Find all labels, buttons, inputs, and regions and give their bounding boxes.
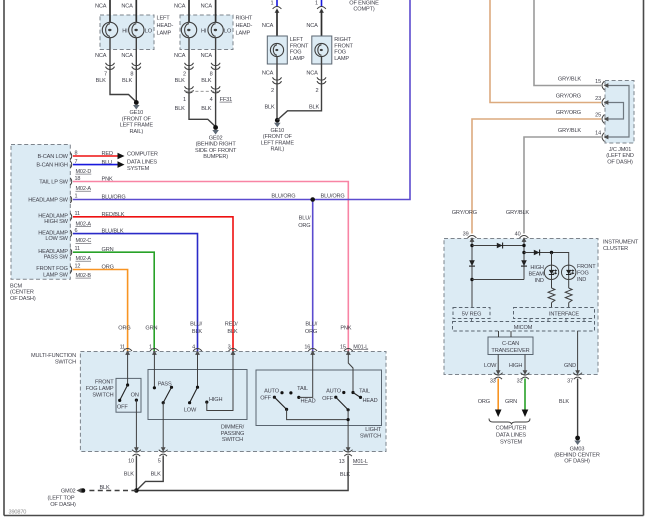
svg-text:5V REG: 5V REG	[462, 312, 482, 318]
pass switch contact and lever	[170, 386, 173, 389]
pin40 branch	[523, 241, 525, 280]
svg-text:OFF: OFF	[117, 405, 128, 411]
svg-text:SWITCH: SWITCH	[55, 359, 76, 365]
junction connector JM01 box	[605, 81, 634, 144]
svg-text:OFF: OFF	[260, 396, 271, 402]
JM01 internal link pins 15-14	[605, 86, 629, 138]
JM01 pin 14	[602, 133, 608, 142]
unit1 HEAD contact fed by pin 16	[297, 396, 300, 399]
fog switch lever to OFF	[120, 385, 128, 400]
svg-text:GE10: GE10	[129, 110, 143, 116]
svg-text:32: 32	[517, 379, 523, 385]
right headlamp box	[180, 15, 233, 50]
svg-text:DATA LINES: DATA LINES	[496, 433, 526, 439]
light switch box	[256, 370, 382, 426]
svg-text:NCA: NCA	[201, 53, 213, 59]
JM01 internal link pins 23-25	[605, 103, 624, 120]
svg-text:8: 8	[210, 72, 213, 78]
JM01 pin 15	[602, 81, 608, 90]
svg-text:AUTO: AUTO	[264, 389, 280, 395]
connector on left fog ground lead	[273, 77, 282, 84]
wire BLK pin 10 to ground junction	[135, 456, 137, 491]
svg-text:BLU/: BLU/	[305, 322, 317, 328]
cluster top pin 39	[468, 236, 477, 242]
fog switch input lead from pin 11	[127, 354, 129, 385]
cluster bottom pin 32	[521, 370, 530, 379]
top pin 16 (BLU/ORG)	[308, 349, 317, 355]
wire right fog lamp ground lead	[277, 57, 321, 120]
connector on HI wire	[185, 63, 194, 70]
svg-text:LAMP: LAMP	[290, 56, 305, 62]
svg-text:PNK: PNK	[340, 326, 351, 332]
wire feed right headlamp LO	[215, 0, 217, 22]
MICOM box	[453, 322, 595, 332]
connector on right fog feed	[317, 7, 326, 13]
top pin 4 (BLU/BLK)	[193, 349, 202, 355]
svg-text:ORG: ORG	[305, 329, 317, 335]
svg-text:11: 11	[120, 344, 126, 350]
ground GM02 (left top of dash)	[81, 488, 86, 493]
svg-text:4: 4	[192, 344, 195, 350]
svg-text:NCA: NCA	[262, 23, 274, 29]
svg-text:M02-A: M02-A	[76, 186, 92, 192]
svg-text:NCA: NCA	[306, 23, 318, 29]
svg-text:M01-L: M01-L	[353, 344, 368, 350]
border frame bottom	[4, 515, 644, 517]
svg-text:4: 4	[210, 97, 213, 103]
svg-text:HIGH: HIGH	[209, 397, 222, 403]
top pin 15 (PNK) + connector M01-L	[344, 349, 353, 355]
svg-text:FRONT: FRONT	[577, 264, 596, 270]
svg-text:PASS SW: PASS SW	[44, 254, 69, 260]
svg-text:BLK: BLK	[227, 329, 238, 335]
wire right headlamp HI ground lead	[189, 38, 216, 127]
connector on left fog feed	[273, 7, 282, 13]
svg-text:HEAD-: HEAD-	[236, 23, 253, 29]
link 39-40 with diode	[472, 245, 524, 247]
svg-text:RED/: RED/	[225, 322, 238, 328]
high beam indicator LED	[544, 265, 558, 279]
svg-text:GRN: GRN	[505, 399, 517, 405]
wire BLK pin 5 to ground junction	[136, 456, 163, 491]
svg-text:BLK: BLK	[99, 485, 110, 491]
wire feed left headlamp LO	[135, 0, 137, 22]
svg-text:33: 33	[490, 379, 496, 385]
svg-text:23: 23	[595, 96, 601, 102]
svg-text:GM02: GM02	[61, 489, 76, 495]
svg-text:M02-A: M02-A	[76, 221, 92, 227]
svg-text:BLK: BLK	[309, 104, 320, 110]
wire left headlamp LO ground lead	[135, 38, 137, 102]
bulb right headlamp HI	[181, 22, 196, 37]
unit2 AUTO contact	[342, 391, 345, 394]
5V REG box	[453, 308, 490, 319]
svg-text:IND: IND	[577, 277, 586, 283]
svg-text:RAIL): RAIL)	[130, 129, 144, 135]
svg-text:HIGH: HIGH	[530, 265, 543, 271]
svg-text:DATA LINES: DATA LINES	[127, 160, 157, 166]
svg-text:1: 1	[183, 97, 186, 103]
cluster internal: pin39 branch	[471, 241, 473, 308]
svg-text:16: 16	[304, 344, 310, 350]
svg-text:(CENTER: (CENTER	[10, 290, 34, 296]
svg-text:BLU/ORG: BLU/ORG	[271, 194, 295, 200]
svg-text:BLU/: BLU/	[299, 215, 311, 221]
svg-text:TAIL LP SW: TAIL LP SW	[39, 180, 68, 186]
bulb left fog lamp	[270, 43, 283, 56]
svg-text:SWITCH: SWITCH	[92, 392, 113, 398]
ground GE10 (front of left frame rail)	[274, 118, 281, 127]
svg-text:2: 2	[271, 88, 274, 94]
svg-text:GRY/BLK: GRY/BLK	[558, 128, 582, 134]
bulb left headlamp LO	[129, 22, 144, 37]
svg-text:14: 14	[595, 131, 601, 137]
border frame left	[3, 0, 5, 516]
dimmer input lead from pin 4	[197, 354, 199, 387]
connector on right fog ground lead	[317, 77, 326, 84]
svg-text:NCA: NCA	[201, 4, 213, 10]
svg-text:BEAM: BEAM	[529, 272, 545, 278]
svg-text:TAIL: TAIL	[297, 386, 308, 392]
cluster bottom pin 33	[494, 370, 503, 379]
GND lead from MICOM	[577, 331, 579, 372]
svg-text:LO: LO	[145, 28, 153, 34]
svg-text:FRONT: FRONT	[95, 379, 114, 385]
border frame right	[643, 0, 645, 516]
cross link at 279.5	[472, 279, 524, 281]
svg-text:GRY/ORG: GRY/ORG	[452, 210, 477, 216]
svg-text:HEAD: HEAD	[363, 398, 378, 404]
svg-text:11: 11	[75, 246, 81, 252]
stubs MICOM to C-CAN	[498, 331, 500, 337]
inline connector FF31 on HI wire	[185, 86, 194, 93]
svg-text:MULTI-FUNCTION: MULTI-FUNCTION	[31, 353, 76, 359]
svg-text:LIGHT: LIGHT	[365, 427, 381, 433]
unit1 AUTO contact	[280, 391, 283, 394]
svg-text:RIGHT: RIGHT	[334, 37, 351, 43]
svg-text:NCA: NCA	[174, 53, 186, 59]
svg-text:M02-A: M02-A	[76, 256, 92, 262]
wire ORG to computer data lines	[497, 379, 499, 411]
svg-text:(BEHIND RIGHT: (BEHIND RIGHT	[196, 142, 237, 148]
svg-text:LEFT: LEFT	[157, 16, 171, 22]
wire left headlamp HI ground lead	[110, 38, 136, 102]
svg-text:LAMP: LAMP	[334, 56, 349, 62]
svg-text:2: 2	[316, 88, 319, 94]
svg-text:RIGHT: RIGHT	[236, 16, 253, 22]
svg-text:LOW: LOW	[484, 363, 497, 369]
top pin 11 (ORG)	[123, 349, 132, 355]
svg-text:BLK: BLK	[124, 471, 135, 477]
front fog indicator LED	[562, 265, 576, 279]
svg-text:15: 15	[595, 79, 601, 85]
wire BLK pin 13 to ground junction	[136, 456, 348, 491]
svg-text:ORG: ORG	[478, 399, 490, 405]
cluster top pin 40	[520, 236, 529, 242]
wire left fog lamp feed	[276, 10, 278, 44]
svg-text:(LEFT END: (LEFT END	[606, 153, 634, 159]
bottom pin 13 + connector M01-L	[344, 447, 353, 456]
svg-text:RAIL): RAIL)	[271, 147, 285, 153]
svg-text:INSTRUMENT: INSTRUMENT	[603, 240, 639, 246]
svg-text:LO: LO	[224, 28, 232, 34]
pass switch input lead from pin 1	[153, 354, 155, 388]
svg-text:GRY/BLK: GRY/BLK	[506, 210, 530, 216]
fog switch ON contact to pin 10	[135, 399, 138, 402]
wire GRY/ORG JM01 pin 25 to cluster pin 39	[472, 119, 601, 234]
svg-text:FOG: FOG	[290, 50, 302, 56]
svg-text:BLK: BLK	[175, 78, 186, 84]
svg-text:390870: 390870	[9, 510, 27, 516]
unit2 OFF contact + lever	[334, 396, 337, 399]
svg-text:FOG: FOG	[334, 50, 346, 56]
svg-text:HEAD: HEAD	[301, 399, 316, 405]
svg-text:37: 37	[567, 379, 573, 385]
C-CAN HIGH lead	[524, 355, 526, 372]
svg-text:(FRONT OF: (FRONT OF	[263, 134, 293, 140]
dimmer HIGH contact to pin 3	[205, 401, 208, 404]
svg-text:GND: GND	[564, 363, 576, 369]
svg-text:15: 15	[340, 344, 346, 350]
svg-text:(FRONT OF: (FRONT OF	[122, 116, 152, 122]
svg-text:ON: ON	[131, 392, 139, 398]
svg-text:1: 1	[149, 344, 152, 350]
svg-text:NCA: NCA	[121, 53, 133, 59]
svg-text:GRY/BLK: GRY/BLK	[558, 77, 582, 83]
svg-text:FRONT FOG: FRONT FOG	[36, 266, 68, 272]
svg-text:BLK: BLK	[96, 78, 107, 84]
bulb right fog lamp	[315, 43, 328, 56]
svg-text:NCA: NCA	[262, 70, 274, 76]
INTERFACE box	[514, 308, 595, 319]
svg-text:M02-C: M02-C	[76, 238, 92, 244]
ground GE10 (left frame rail)	[133, 100, 140, 109]
svg-text:SYSTEM: SYSTEM	[127, 166, 150, 172]
svg-text:IND: IND	[535, 278, 544, 284]
unit2 TAIL contact fed by pin 15	[348, 354, 353, 393]
svg-text:LOW SW: LOW SW	[45, 236, 68, 242]
svg-text:OF DASH): OF DASH)	[607, 159, 633, 165]
svg-text:C-CAN: C-CAN	[502, 341, 519, 347]
left headlamp box	[100, 15, 154, 50]
svg-text:BLK: BLK	[559, 399, 570, 405]
svg-text:LOW: LOW	[184, 408, 197, 414]
ground GE02 (behind right side of front bumper)	[212, 125, 219, 134]
svg-text:7: 7	[104, 72, 107, 78]
svg-text:1: 1	[315, 1, 318, 7]
svg-text:OF DASH): OF DASH)	[10, 296, 36, 302]
svg-text:GRY/ORG: GRY/ORG	[556, 110, 581, 116]
wire stub BLU feed left fog lamp	[276, 0, 278, 7]
svg-text:(LEFT TOP: (LEFT TOP	[48, 496, 75, 502]
svg-text:ORG: ORG	[118, 326, 130, 332]
inline connector FF31 on LO wire	[211, 86, 220, 93]
connector on HI wire	[106, 63, 115, 70]
svg-text:FOG LAMP: FOG LAMP	[86, 386, 114, 392]
svg-text:LAMP SW: LAMP SW	[43, 272, 69, 278]
ground junction node	[134, 488, 139, 493]
svg-text:BLU/: BLU/	[190, 322, 202, 328]
svg-text:LEFT FRAME: LEFT FRAME	[261, 140, 295, 146]
svg-text:J/C JM01: J/C JM01	[609, 147, 631, 153]
svg-text:SIDE OF FRONT: SIDE OF FRONT	[195, 148, 237, 154]
svg-text:INTERFACE: INTERFACE	[549, 312, 579, 318]
svg-text:FRONT: FRONT	[334, 43, 353, 49]
front fog lamp switch box	[116, 378, 141, 412]
svg-text:OF DASH): OF DASH)	[564, 459, 590, 465]
diode pin39 branch	[469, 260, 475, 266]
svg-text:FRONT: FRONT	[290, 43, 309, 49]
svg-text:TAIL: TAIL	[359, 389, 370, 395]
svg-text:LEFT FRAME: LEFT FRAME	[120, 123, 154, 129]
svg-text:PASSING: PASSING	[221, 431, 244, 437]
svg-text:M01-L: M01-L	[353, 459, 368, 465]
svg-text:2: 2	[183, 72, 186, 78]
svg-text:3: 3	[228, 344, 231, 350]
dimmer lever to LOW	[190, 387, 198, 403]
svg-text:DIMMER/: DIMMER/	[221, 425, 245, 431]
top pin 3 (RED/BLK)	[229, 349, 238, 355]
svg-text:BLK: BLK	[264, 104, 275, 110]
svg-text:M02-D: M02-D	[76, 169, 92, 175]
svg-text:BLK: BLK	[151, 471, 162, 477]
ground GM03 (behind center of dash)	[574, 436, 581, 445]
svg-text:LAMP: LAMP	[236, 31, 251, 37]
BCM box	[11, 145, 70, 280]
svg-text:MICOM: MICOM	[514, 325, 533, 331]
bulb right headlamp LO	[208, 22, 223, 37]
svg-text:NCA: NCA	[306, 70, 318, 76]
svg-text:PASS: PASS	[158, 382, 172, 388]
svg-text:B-CAN HIGH: B-CAN HIGH	[36, 163, 68, 169]
unit1 OFF contact + lever	[273, 396, 276, 399]
svg-text:GRN: GRN	[145, 326, 157, 332]
svg-text:BLK: BLK	[175, 106, 186, 112]
wire GRY/BLK JM01 pin 14 to cluster pin 40	[524, 137, 601, 234]
BCM pin arcs	[70, 153, 72, 274]
left front fog lamp box	[267, 36, 287, 64]
svg-text:25: 25	[595, 113, 601, 119]
right front fog lamp box	[312, 36, 332, 64]
svg-text:SWITCH: SWITCH	[222, 437, 243, 443]
svg-text:BCM: BCM	[10, 283, 22, 289]
wire GRY/ORG to JM01 pin 23	[490, 0, 601, 103]
svg-text:OF DASH): OF DASH)	[50, 502, 76, 508]
svg-text:LEFT: LEFT	[290, 37, 304, 43]
svg-text:SWITCH: SWITCH	[360, 434, 381, 440]
multi-function switch box	[80, 352, 386, 452]
svg-text:1: 1	[271, 1, 274, 7]
connector FF31 dashed link	[185, 90, 220, 92]
svg-text:OF ENGINE: OF ENGINE	[349, 0, 379, 6]
resistor under front fog LED	[568, 279, 570, 288]
svg-text:40: 40	[515, 232, 521, 238]
top pin 1 (GRN)	[150, 349, 159, 355]
svg-text:BLK: BLK	[201, 78, 212, 84]
svg-text:BLK: BLK	[340, 472, 351, 478]
svg-text:BLU/ORG: BLU/ORG	[321, 194, 345, 200]
svg-text:(BEHIND CENTER: (BEHIND CENTER	[554, 452, 600, 458]
JM01 pin 23	[602, 98, 608, 107]
wire right fog lamp feed	[321, 10, 323, 44]
connection stubs between internal boxes	[472, 319, 585, 322]
svg-text:FOG: FOG	[577, 271, 589, 277]
connector on LO wire	[132, 63, 141, 70]
diode pin40 branch	[521, 260, 527, 266]
svg-text:TRANSCEIVER: TRANSCEIVER	[491, 348, 529, 354]
svg-text:M02-B: M02-B	[76, 273, 92, 279]
wire feed left headlamp HI	[109, 0, 111, 22]
svg-text:BLK: BLK	[201, 106, 212, 112]
svg-text:HI: HI	[201, 28, 207, 34]
C-CAN LOW lead	[497, 355, 499, 372]
svg-text:HIGH SW: HIGH SW	[44, 219, 68, 225]
junction node BLU/ORG	[310, 197, 315, 202]
wire stub BLU feed right fog lamp	[321, 0, 323, 7]
svg-text:CLUSTER: CLUSTER	[603, 246, 628, 252]
unit1 common run to unit2	[287, 409, 349, 419]
svg-text:COMPUTER: COMPUTER	[127, 152, 158, 158]
wire BLU/ORG branch to switch pin 16	[312, 200, 314, 352]
svg-text:HEAD-: HEAD-	[157, 23, 174, 29]
svg-text:COMPT): COMPT)	[353, 7, 374, 13]
svg-text:NCA: NCA	[95, 4, 107, 10]
svg-text:HI: HI	[122, 28, 128, 34]
wire BLK to GM03	[577, 379, 579, 437]
pass switch common to pin 5	[162, 403, 164, 449]
JM01 pin 25	[602, 115, 608, 124]
dashed wire BLK to GM02	[86, 490, 136, 492]
wire left fog lamp ground lead	[276, 57, 278, 118]
svg-text:HIGH: HIGH	[509, 363, 522, 369]
wire GRN to computer data lines	[524, 379, 526, 411]
svg-text:GE02: GE02	[209, 135, 223, 141]
svg-text:10: 10	[128, 458, 134, 464]
unit2 common to pin 13	[347, 410, 349, 449]
bottom pin 10	[132, 447, 141, 456]
wire right headlamp LO ground lead	[215, 38, 217, 127]
C-CAN transceiver box	[488, 337, 533, 355]
bottom pin 5	[159, 447, 168, 456]
unit1 TAIL contact	[289, 391, 292, 394]
svg-text:GRY/ORG: GRY/ORG	[556, 94, 581, 100]
svg-text:BUMPER): BUMPER)	[203, 154, 228, 160]
svg-text:39: 39	[463, 232, 469, 238]
resistor under high beam LED	[551, 279, 553, 288]
svg-text:HEADLAMP SW: HEADLAMP SW	[28, 198, 68, 204]
svg-text:5: 5	[158, 458, 161, 464]
svg-text:FF31: FF31	[220, 97, 232, 103]
svg-text:NCA: NCA	[174, 4, 186, 10]
svg-text:ORG: ORG	[298, 223, 310, 229]
svg-text:NCA: NCA	[95, 53, 107, 59]
svg-text:AUTO: AUTO	[326, 389, 342, 395]
connector on LO wire	[211, 63, 220, 70]
svg-text:NCA: NCA	[121, 4, 133, 10]
wire feed right headlamp HI	[188, 0, 190, 22]
dimmer/passing switch box	[148, 370, 247, 420]
LED feed with diode	[524, 253, 569, 266]
svg-text:B-CAN LOW: B-CAN LOW	[37, 154, 68, 160]
svg-text:BLK: BLK	[192, 329, 203, 335]
bulb left headlamp HI	[102, 22, 117, 37]
svg-text:COMPUTER: COMPUTER	[496, 426, 527, 432]
brace under arrows	[489, 419, 530, 425]
cluster bottom pin 37	[573, 370, 582, 379]
svg-text:1: 1	[75, 193, 78, 199]
svg-text:13: 13	[339, 459, 345, 465]
svg-text:8: 8	[130, 72, 133, 78]
